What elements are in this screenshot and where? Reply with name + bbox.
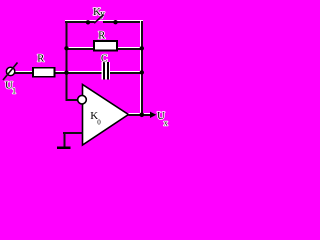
output arrowhead <box>150 112 156 118</box>
svg-text:0: 0 <box>97 119 101 127</box>
node dot right rail / output <box>140 113 145 118</box>
resistor R2 halo <box>93 40 118 52</box>
ground bar <box>57 147 71 149</box>
wire: non-inverting input lead <box>63 132 83 134</box>
wire: top branch left segment <box>65 21 95 23</box>
wire: middle branch <box>66 48 142 50</box>
wire: top branch right segment <box>103 21 143 23</box>
wire: ground stub vertical <box>64 132 66 146</box>
capacitor C white gap <box>102 62 111 80</box>
node dot right rail / capacitor line <box>140 70 144 74</box>
wire: middle feedback branch (resistor R2 branch) white halo <box>66 47 142 48</box>
wire: inverting input lead <box>66 99 78 101</box>
svg-text:C: C <box>101 54 108 65</box>
wire: input / capacitor line white halo <box>15 71 143 72</box>
resistor R2 body <box>94 41 117 51</box>
resistor R1 halo <box>32 67 56 78</box>
svg-text:1: 1 <box>12 87 16 96</box>
wire: right rail (node B vertical, output feedback) <box>141 21 143 116</box>
capacitor C left plate <box>103 62 105 80</box>
wire: top feedback branch (switch branch) white halo <box>65 20 143 21</box>
node dot right rail / R branch <box>140 46 144 50</box>
wire: right rail white halo <box>140 21 141 116</box>
wire: output line white halo <box>129 113 151 114</box>
node dot left rail / input line <box>64 70 68 74</box>
svg-text:R: R <box>37 53 44 64</box>
switch Ky right contact dot <box>113 20 117 24</box>
input source symbol (circle with arrow) <box>6 67 14 75</box>
switch Ky blade <box>94 15 103 24</box>
resistor R1 (input) body <box>33 68 55 77</box>
input source arrow <box>3 63 18 81</box>
op-amp A1 triangle body <box>83 85 129 146</box>
svg-text:R: R <box>98 30 105 41</box>
wire: left rail (node A vertical) <box>66 21 68 101</box>
node dot left rail / R branch <box>64 46 68 50</box>
wire: input / capacitor line <box>15 72 143 74</box>
svg-text:x: x <box>164 119 168 128</box>
op-amp inverting input bubble <box>78 95 87 104</box>
wire: output line <box>129 114 151 116</box>
capacitor C right plate <box>107 62 109 80</box>
switch Ky left contact dot <box>86 20 90 24</box>
